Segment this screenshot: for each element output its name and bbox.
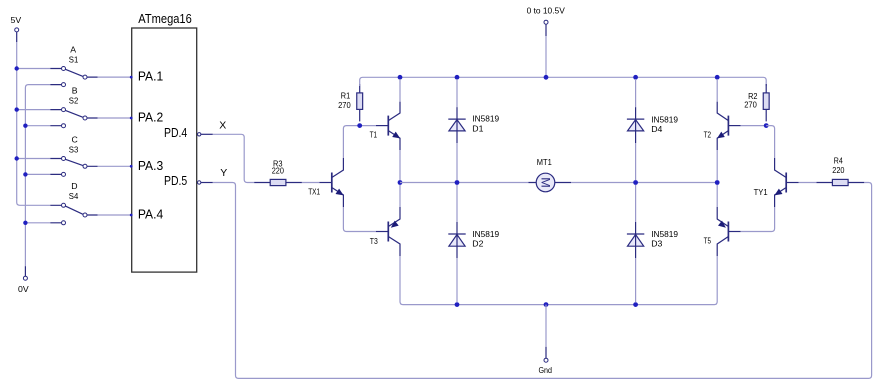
svg-text:S3: S3 — [69, 144, 79, 154]
wire D3 to bottom rail — [635, 258, 637, 302]
svg-text:B: B — [72, 85, 78, 95]
transistor T1 — [370, 102, 401, 150]
svg-text:220: 220 — [832, 165, 844, 175]
svg-text:D4: D4 — [651, 124, 662, 134]
junction mid rail D4 D3 — [633, 180, 638, 185]
switch S1 — [50, 44, 97, 86]
svg-text:T1: T1 — [370, 130, 378, 140]
svg-text:D: D — [71, 181, 77, 191]
wire D4 to top rail — [635, 79, 637, 107]
svg-text:5V: 5V — [11, 15, 22, 25]
junction bottom rail D2 — [455, 302, 460, 307]
diode D1 — [448, 107, 499, 143]
svg-text:Gnd: Gnd — [539, 365, 553, 375]
svg-text:220: 220 — [272, 166, 284, 176]
svg-text:0V: 0V — [18, 284, 29, 294]
svg-text:D1: D1 — [472, 124, 483, 134]
svg-text:PA.2: PA.2 — [138, 110, 163, 125]
pin PD.4 — [164, 125, 213, 140]
wire S4 to PA.4 — [98, 214, 131, 216]
wire 0V rail — [25, 85, 50, 267]
wire T3 emitter to node A — [399, 185, 401, 207]
transistor T3 — [370, 207, 400, 256]
wire D2 to bottom rail — [456, 258, 458, 302]
motor MT1 — [529, 157, 572, 192]
wire Y PD.5 to R4 — [213, 183, 872, 379]
junction top rail T1 — [398, 75, 403, 80]
svg-text:S2: S2 — [69, 96, 79, 106]
wire S2 bottom feed — [25, 125, 50, 127]
switch S4 — [50, 181, 97, 225]
svg-text:C: C — [72, 134, 78, 144]
wire T2 base — [741, 125, 767, 127]
wire S3 to PA.3 — [98, 165, 131, 167]
junction 0V rail S4 — [23, 221, 27, 225]
wire D1 to top rail — [456, 79, 458, 107]
svg-text:D2: D2 — [472, 239, 483, 249]
wire X PD.4 to R3 — [213, 134, 254, 182]
wire 5V rail — [17, 42, 51, 205]
pin PA.1 — [130, 69, 163, 84]
switch S3 — [50, 134, 97, 176]
wire S1 to PA.1 — [98, 76, 131, 78]
transistor T5 — [704, 207, 741, 256]
svg-text:IN5819: IN5819 — [472, 229, 499, 239]
transistor TY1 — [754, 158, 799, 207]
svg-text:S1: S1 — [69, 54, 79, 64]
junction top rail T2 — [715, 75, 720, 80]
junction top rail D4 — [633, 75, 638, 80]
svg-text:PA.4: PA.4 — [138, 207, 163, 222]
junction node R2 T2 TY1 — [764, 123, 769, 128]
junction rail S1 — [15, 66, 19, 70]
wire D1 to mid rail — [456, 143, 458, 180]
svg-text:TX1: TX1 — [308, 187, 320, 197]
wire mid rail right — [571, 182, 717, 184]
junction 0V rail S3 — [23, 172, 27, 176]
wire Gnd stub — [545, 305, 547, 347]
junction mid rail D1 D2 — [455, 180, 460, 185]
svg-text:Y: Y — [220, 167, 227, 179]
junction top rail D1 — [455, 75, 460, 80]
svg-text:D3: D3 — [651, 239, 662, 249]
wire S4 bottom feed — [25, 222, 50, 224]
svg-text:PA.1: PA.1 — [138, 69, 163, 84]
resistor R4 — [816, 156, 864, 186]
diode D4 — [627, 107, 678, 143]
wire S3 top feed — [17, 158, 51, 160]
svg-text:270: 270 — [744, 100, 757, 110]
svg-text:0 to 10.5V: 0 to 10.5V — [527, 5, 566, 15]
wire top supply rail — [360, 77, 767, 86]
pin PD.5 — [164, 173, 213, 188]
svg-text:IN5819: IN5819 — [472, 114, 499, 124]
svg-text:T3: T3 — [370, 236, 378, 246]
svg-text:PD.4: PD.4 — [164, 125, 187, 140]
svg-text:T2: T2 — [704, 130, 712, 140]
svg-text:A: A — [70, 44, 76, 54]
svg-text:MT1: MT1 — [537, 157, 552, 167]
junction top rail supply — [544, 75, 549, 80]
junction 0V rail S2 — [23, 124, 27, 128]
wire S2 top feed — [17, 109, 51, 111]
0 to 10.5V supply terminal — [527, 5, 566, 36]
svg-text:PA.3: PA.3 — [138, 158, 163, 173]
wire TY1 collector to R2 node — [766, 126, 774, 158]
resistor R2 — [744, 84, 769, 121]
wire T2 emitter — [716, 150, 718, 180]
diode D2 — [448, 222, 499, 258]
junction node R1 T1 TX1 — [357, 123, 362, 128]
junction node B right bridge — [715, 180, 720, 185]
wire mid rail left — [400, 182, 529, 184]
junction rail S3 — [15, 156, 19, 160]
svg-text:TY1: TY1 — [754, 187, 768, 197]
svg-text:IN5819: IN5819 — [651, 229, 678, 239]
junction bottom rail Gnd — [544, 302, 549, 307]
svg-text:PD.5: PD.5 — [164, 173, 187, 188]
wire D4 to mid rail — [635, 143, 637, 180]
wire R4 to TY1 base — [799, 182, 817, 184]
svg-text:S4: S4 — [69, 191, 79, 201]
wire R3 to TX1 — [302, 182, 320, 184]
transistor TX1 — [308, 158, 343, 207]
pin PA.3 — [130, 158, 163, 173]
wire supply stub — [545, 36, 547, 77]
wire T5 emitter to node B — [716, 185, 718, 207]
wire TX1 emitter to T3 base — [343, 207, 376, 232]
svg-text:M: M — [538, 177, 550, 188]
junction bottom rail D3 — [633, 302, 638, 307]
wire S2 to PA.2 — [98, 117, 131, 119]
svg-text:X: X — [219, 119, 226, 131]
svg-text:ATmega16: ATmega16 — [138, 11, 192, 26]
switch S2 — [50, 85, 97, 127]
svg-text:T5: T5 — [704, 235, 712, 245]
junction node A left bridge — [398, 180, 403, 185]
pin PA.4 — [130, 207, 163, 222]
svg-text:R4: R4 — [834, 156, 843, 166]
wire S1 top feed — [17, 68, 51, 70]
wire T3 collector and bottom rail — [400, 256, 717, 305]
junction rail S2 — [15, 107, 19, 111]
transistor T2 — [704, 102, 741, 150]
wire T1 base — [360, 125, 376, 127]
wire TY1 emitter to T5 base — [741, 207, 775, 232]
5V terminal — [11, 15, 22, 42]
pin PA.2 — [130, 110, 163, 125]
wire S3 bottom feed — [25, 173, 50, 175]
wire T1 emitter — [399, 150, 401, 180]
0V terminal — [18, 266, 29, 294]
wire T2 collector — [716, 79, 718, 102]
Gnd terminal — [539, 347, 553, 375]
resistor R1 — [338, 84, 363, 121]
resistor R3 — [254, 158, 302, 185]
wire TX1 collector to R1 node — [343, 126, 359, 158]
svg-text:R1: R1 — [341, 91, 351, 101]
diode D3 — [627, 222, 678, 258]
wire D3 to mid rail — [635, 185, 637, 222]
wire D2 to mid rail — [456, 185, 458, 222]
wire T1 collector — [399, 79, 401, 102]
svg-text:270: 270 — [338, 100, 351, 110]
IC U1 ATmega16 — [132, 11, 197, 272]
